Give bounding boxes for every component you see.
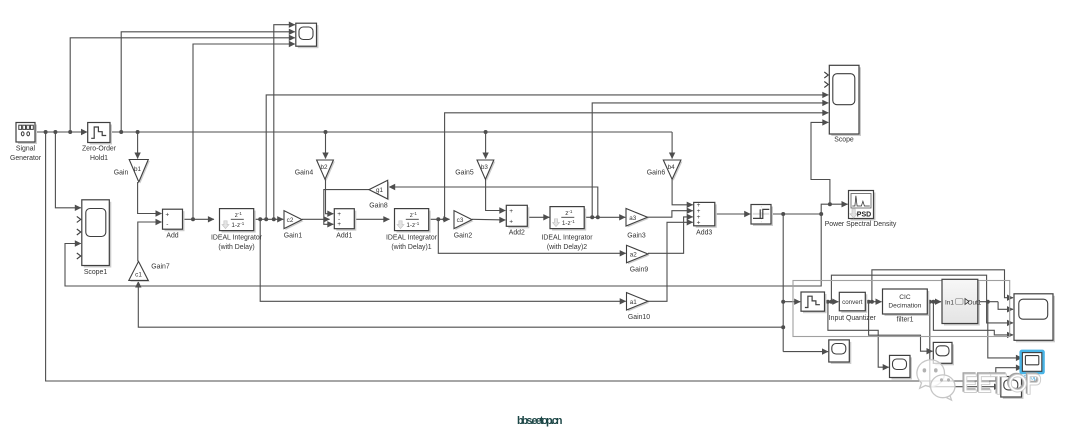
wire CIC to In1Out1 [927, 301, 941, 303]
wire relay out feedback to Scope1 in4 [65, 214, 821, 286]
wire int2 out to big Scope in4 [592, 103, 828, 217]
wire In1Out1 output [978, 301, 998, 303]
wire to Scope1 in1 [55, 132, 80, 208]
wire Zero-Order Hold1 output main line [110, 131, 672, 133]
block IDEAL Integrator (with Delay)2 [552, 209, 586, 231]
block CIC Decimation [885, 291, 930, 316]
svg-text:Gain1: Gain1 [284, 233, 303, 240]
wire Add output to top scope in4 [193, 44, 295, 219]
wire integrator2 to Gain3 a3 [584, 216, 625, 218]
wire Gain7 c1 to Add - [138, 222, 162, 261]
svg-text:Add2: Add2 [509, 230, 525, 237]
gain Gain2 (c3) [456, 212, 474, 230]
block quantizer staircase [803, 294, 827, 313]
node branch to Gain7 feedback line [781, 325, 785, 329]
node int2 out tap to Gain8 [596, 215, 600, 219]
block small scope D [892, 357, 913, 379]
svg-text:IDEAL Integrator: IDEAL Integrator [541, 235, 593, 242]
wire Gain2 c3 to Add2 in2 [472, 218, 505, 221]
gain Gain8 (g1) [371, 182, 390, 201]
wire In1Out1 out to highlighted scope in1 [988, 302, 1022, 358]
watermark EETOP text [964, 374, 1039, 393]
svg-text:c2: c2 [287, 217, 294, 224]
svg-text:Scope1: Scope1 [84, 269, 108, 276]
block small scope E [1003, 379, 1024, 400]
block Signal Generator [18, 125, 37, 145]
port Scope1 in2 unconnected [77, 216, 81, 222]
wire integrator out to Gain10 a1 [260, 219, 626, 301]
wire into Gain6 b4 [671, 132, 673, 159]
node int1 out tap to big Scope in5 [443, 217, 447, 221]
svg-text:PSD: PSD [857, 212, 871, 219]
wire Gain8 g1 to Add1 in3 [324, 190, 369, 225]
wire integrator out to top scope in1 [274, 25, 295, 220]
wire sig gen to top scope in3 [70, 38, 295, 132]
svg-text:Power Spectral Density: Power Spectral Density [825, 221, 897, 228]
svg-text:(with Delay)1: (with Delay)1 [391, 244, 431, 251]
port Scope in1 unconnected [824, 72, 828, 78]
svg-text:Gain6: Gain6 [647, 170, 666, 177]
node to Gain5 b3 [484, 130, 488, 134]
svg-text:Gain: Gain [114, 170, 129, 177]
wire convert to CIC Decimation [865, 301, 881, 303]
svg-text:(with Delay)2: (with Delay)2 [547, 244, 587, 251]
wire ZOH out to top scope in2 [121, 32, 295, 132]
wire Gain5 b3 to Add2 in1 [486, 179, 506, 210]
wire staircase out to scope D [828, 302, 889, 368]
node branch to Scope1 in1 [53, 130, 57, 134]
svg-text:g1: g1 [376, 187, 384, 194]
wire relay out down branch [782, 214, 784, 352]
adder Add1 [336, 211, 356, 231]
port Scope1 in3 unconnected [77, 229, 81, 235]
svg-text:+: + [697, 220, 701, 227]
watermark wechat logo [917, 360, 955, 400]
block convert (Input Quantizer) [841, 294, 867, 313]
node integrator out tap to Gain10 [258, 217, 262, 221]
node Add output tap [191, 217, 195, 221]
gain Gain1 (c2) [286, 212, 304, 230]
svg-text:Add: Add [166, 233, 178, 240]
svg-text:b2: b2 [320, 164, 328, 171]
block Zero-Order Hold1 [90, 125, 112, 145]
block small scope B [935, 344, 954, 365]
svg-text:+: + [165, 212, 169, 219]
block scope G bottom right [1016, 296, 1055, 343]
block small scope C [831, 342, 852, 364]
svg-text:Gain5: Gain5 [455, 170, 474, 177]
svg-text:convert: convert [842, 299, 863, 306]
svg-text:b1: b1 [134, 166, 142, 173]
node to scope B [867, 300, 871, 304]
svg-text:-: - [166, 221, 168, 228]
block IDEAL Integrator (with Delay)1 [397, 211, 431, 233]
wire integrator1 to Gain2 c3 [429, 218, 450, 220]
svg-text:filter1: filter1 [897, 317, 914, 324]
svg-text:Decimation: Decimation [888, 303, 921, 310]
svg-text:In1: In1 [945, 299, 954, 306]
svg-text:+: + [337, 221, 341, 228]
node branch to Input Quantizer [781, 300, 785, 304]
node integrator out tap to top scope in1 [272, 217, 276, 221]
wire In1Out1 out to scope G in2 [998, 302, 1013, 310]
svg-text:b4: b4 [668, 164, 676, 171]
svg-text:Signal: Signal [16, 146, 36, 153]
wire feedback to Gain7 c1 [138, 282, 783, 328]
node on PSD wire to big Scope in6 [828, 202, 832, 206]
node CIC out down to scope E [928, 300, 932, 304]
wire relay out to scope2 small [783, 351, 828, 353]
wire into Gain4 b2 [325, 132, 327, 159]
svg-text:c3: c3 [457, 217, 464, 224]
port Scope in2 unconnected [824, 82, 828, 88]
wire IDEAL Integrator to Gain1 c2 [254, 218, 283, 220]
node int1 out tap to Gain9 [436, 217, 440, 221]
wire int1 out to Gain9 a2 [438, 219, 625, 253]
svg-text:c1: c1 [135, 272, 142, 279]
svg-text:Gain8: Gain8 [369, 203, 388, 210]
wire Add3 to Relay [715, 213, 750, 215]
wire int2 out to Gain8 g1 feedback [389, 187, 598, 217]
wire into Gain b1 [137, 132, 139, 159]
adder Add [165, 211, 185, 231]
wire staircase out to scope G in3 [831, 275, 1013, 323]
node integrator out tap to big Scope in3 [264, 217, 268, 221]
gain Gain5 (b3) [479, 162, 496, 181]
wire Gain1 c2 to Add1 in2 [302, 218, 330, 220]
wire Relay output [771, 213, 821, 215]
svg-text:Gain7: Gain7 [151, 264, 170, 271]
wire CIC out to scope E [930, 302, 1000, 387]
gain Gain (b1) [131, 161, 150, 184]
block highlighted scope F [1019, 350, 1044, 375]
wire Gain6 b4 to Add3 in1 [672, 179, 693, 205]
node relay out branch to PSD [819, 212, 823, 216]
block Scope (big) [831, 67, 861, 136]
node relay out branch down [781, 212, 785, 216]
svg-text:Input Quantizer: Input Quantizer [829, 315, 877, 322]
svg-text:Hold1: Hold1 [90, 155, 108, 162]
svg-text:Scope: Scope [834, 137, 854, 144]
block top Scope (floating scope) [298, 25, 319, 48]
svg-text:IDEAL Integrator: IDEAL Integrator [386, 235, 438, 242]
port Scope1 in5 unconnected [77, 253, 81, 259]
wire Gain3 a3 to Add3 in2 [648, 211, 693, 218]
svg-text:Generator: Generator [10, 155, 42, 162]
node branch to top scope in3 [68, 130, 72, 134]
node up tap to big scope G in3 [829, 300, 833, 304]
wire convert out to scope G in1 [872, 270, 1013, 302]
svg-text:Gain2: Gain2 [454, 233, 473, 240]
block IDEAL Integrator (with Delay) [222, 211, 256, 233]
svg-text:Gain9: Gain9 [630, 267, 649, 274]
wire Add to IDEAL Integrator [183, 218, 214, 220]
wire Gain10 a1 to Add3 in4 [648, 222, 693, 301]
wire Gain b1 to Add + [138, 182, 162, 214]
gain Gain6 (b4) [665, 162, 683, 181]
svg-text:Add1: Add1 [336, 233, 352, 240]
svg-text:Add3: Add3 [696, 230, 712, 237]
block Scope1 [84, 202, 112, 268]
gain Gain10 (a1) [628, 294, 650, 311]
gain Gain9 (a2) [628, 247, 650, 264]
wire staircase to convert [825, 301, 839, 303]
node to Gain b1 [136, 130, 140, 134]
svg-text:Zero-Order: Zero-Order [82, 146, 117, 153]
svg-text:a1: a1 [630, 299, 638, 306]
adder Add2 [508, 207, 529, 228]
wire into Gain5 b3 [485, 132, 487, 159]
wire Signal Generator output to Zero-Order Hold1 [35, 131, 87, 133]
svg-text:a3: a3 [629, 215, 637, 222]
wire integrator out to big Scope in3 [266, 95, 828, 219]
adder Add3 [696, 204, 717, 227]
svg-text:Gain3: Gain3 [627, 233, 646, 240]
wire Add2 to integrator2 [527, 216, 549, 218]
svg-text:+: + [509, 208, 513, 215]
node to scope D [826, 300, 830, 304]
wire convert out to scope B [869, 302, 933, 352]
svg-text:(with Delay): (with Delay) [218, 244, 254, 251]
annotation area rectangle [793, 281, 1010, 337]
gain Gain4 (b2) [318, 162, 335, 181]
svg-text:b3: b3 [481, 164, 489, 171]
svg-text:a2: a2 [630, 252, 638, 259]
node In1Out1 out [986, 300, 990, 304]
wire int1 out to big Scope in5 [445, 113, 829, 220]
wire signal generator long feed to highlighted scope in2 [46, 132, 1022, 381]
svg-text:Gain4: Gain4 [295, 170, 314, 177]
gain Gain7 (c1) [130, 263, 149, 282]
gain Gain3 (a3) [628, 210, 650, 228]
node ZOH out to top scope in2 [119, 130, 123, 134]
node up tap convert out [870, 300, 874, 304]
wire Add1 to IDEAL Integrator (with Delay)1 [354, 218, 389, 220]
block Power Spectral Density [851, 193, 876, 221]
wire Gain9 a2 to Add3 in3 [648, 217, 693, 253]
svg-text:+: + [509, 218, 513, 225]
svg-text:bbs.eetop.cn: bbs.eetop.cn [517, 415, 563, 427]
svg-text:Gain10: Gain10 [628, 314, 650, 321]
svg-text:Out1: Out1 [968, 299, 982, 306]
node branch to bottom long line [44, 130, 48, 134]
node int2 out tap to big Scope in4 [590, 215, 594, 219]
block subsystem In1/Out1 [944, 281, 980, 325]
svg-text:CIC: CIC [899, 294, 911, 301]
node CIC out to scope G in4 [931, 300, 935, 304]
wire CIC out to scope G in4 [933, 302, 1013, 335]
svg-text:IDEAL Integrator: IDEAL Integrator [211, 235, 263, 242]
node to Gain4 b2 [324, 130, 328, 134]
wire relay out to big Scope in6 [811, 122, 830, 204]
block Relay [753, 207, 773, 227]
wire Gain4 b2 to Add1 in1 [326, 179, 334, 213]
wire relay out up to Power Spectral Density [821, 204, 848, 214]
